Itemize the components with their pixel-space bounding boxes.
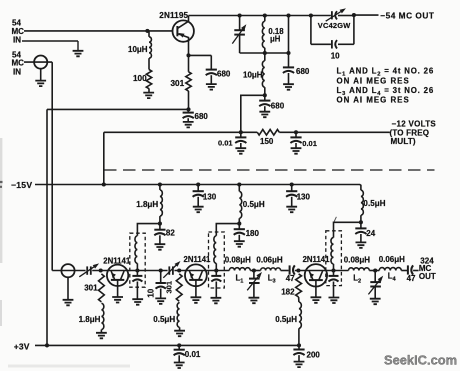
capacitor tank 1 xyxy=(136,271,138,276)
capacitor 47 (series) xyxy=(289,265,291,274)
svg-text:0.01: 0.01 xyxy=(218,139,233,148)
ground (Q2 emitter) xyxy=(117,280,119,297)
node rail junction 130b xyxy=(290,182,294,186)
capacitor VC42GW (variable, top edge) xyxy=(331,11,333,19)
node -12V junction left xyxy=(239,130,243,134)
resistor 100 xyxy=(148,58,150,69)
wire mixer input segment xyxy=(52,270,85,272)
wire tank right riser xyxy=(288,16,290,54)
ground (Q2 bias chain) xyxy=(96,333,107,339)
inductor 0.5uH (stage3 feed) xyxy=(361,190,363,215)
svg-text:680: 680 xyxy=(195,112,209,121)
ground (82) xyxy=(159,235,161,244)
ground (+3V 0.01) xyxy=(178,355,180,362)
svg-text:150: 150 xyxy=(260,137,274,146)
ground (0.01 left) xyxy=(240,143,242,148)
wire output stub xyxy=(413,270,419,272)
capacitor 200 (+3V bypass) xyxy=(298,345,300,349)
svg-text:2N1141: 2N1141 xyxy=(303,255,331,264)
ground (base chain) xyxy=(148,89,150,93)
svg-text:μH: μH xyxy=(270,34,281,43)
node stage1 feed junction xyxy=(158,222,162,226)
inductor 0.5uH (Q4 bias) xyxy=(298,297,300,302)
wire Q1 collector riser to top rail xyxy=(188,16,190,22)
inductor tank coil 1 xyxy=(135,236,137,264)
wire stage1 feed to tank box xyxy=(137,224,160,236)
ground (tank3) xyxy=(333,282,335,298)
svg-text:ON AI MEG RES: ON AI MEG RES xyxy=(337,76,410,85)
wire VC box right edge xyxy=(353,15,355,44)
inductor L4 0.06uH xyxy=(369,270,379,272)
ground (130a) xyxy=(197,197,199,207)
ground (130b) xyxy=(291,197,293,207)
svg-text:−12 VOLTS: −12 VOLTS xyxy=(392,119,437,128)
transistor Q2 2N1141 xyxy=(107,265,128,286)
ground (200) xyxy=(298,355,300,361)
node L2-L4 junction xyxy=(373,268,377,272)
svg-text:−15V: −15V xyxy=(11,180,32,190)
wire 301 to +3V feed line xyxy=(188,94,190,110)
svg-text:100: 100 xyxy=(133,74,147,83)
node +3V junction 0.01 xyxy=(177,343,181,347)
separator dashed line xyxy=(104,169,435,171)
capacitor 0.01 (+3V bypass) xyxy=(178,345,180,349)
svg-text:182: 182 xyxy=(281,287,295,296)
wire cap47 to Q4 xyxy=(295,270,349,272)
variable capacitor (L1/L3 tune) xyxy=(253,271,255,279)
node +3V left junction xyxy=(45,343,49,347)
ground (Q3 bias chain) xyxy=(174,331,185,337)
node VC box left junction xyxy=(309,13,313,17)
svg-text:301: 301 xyxy=(171,79,185,88)
svg-text:200: 200 xyxy=(307,351,321,360)
inductor 0.5uH (stage2 feed) xyxy=(238,185,240,192)
node tank rail junction A xyxy=(238,13,242,17)
svg-text:1.8μH: 1.8μH xyxy=(136,200,158,209)
resistor 150 (series) xyxy=(257,130,279,136)
inductor 1.8uH (stage1 feed) xyxy=(159,185,161,190)
variable capacitor (osc tank trimmer) xyxy=(239,16,241,31)
svg-text:MULT): MULT) xyxy=(391,137,416,146)
ground (680 feed bypass) xyxy=(187,118,189,121)
inductor 0.18uH xyxy=(264,16,266,22)
svg-text:10μH: 10μH xyxy=(243,71,263,80)
svg-text:130: 130 xyxy=(297,192,311,201)
node tank1 junction xyxy=(135,268,139,272)
ground (680 emitter bypass) xyxy=(210,75,212,84)
wire second input to vertical feed xyxy=(24,61,52,63)
capacitor 680 (feed bypass) xyxy=(187,109,189,112)
ground (mixer) xyxy=(67,277,69,299)
svg-text:0.06μH: 0.06μH xyxy=(256,255,282,264)
node stage3 feed junction xyxy=(359,220,363,224)
ground (J2 connector) xyxy=(40,69,42,81)
wire L4 to output cap xyxy=(401,270,408,272)
node Q3 input junction xyxy=(177,268,181,272)
svg-text:SeekIC.com: SeekIC.com xyxy=(384,353,457,368)
capacitor 180 xyxy=(238,224,240,230)
inductor tank coil 3 xyxy=(331,238,334,264)
svg-text:ON AI MEG RES: ON AI MEG RES xyxy=(337,96,410,105)
svg-text:+3V: +3V xyxy=(14,341,30,351)
inductor 1.8uH (Q2 bias) xyxy=(101,303,103,329)
capacitor tank 2 xyxy=(215,271,217,276)
wire VC box left edge xyxy=(310,16,312,45)
ground (180) xyxy=(238,235,240,241)
node Q4 input junction xyxy=(296,268,300,272)
wire vertical feed from J2 down to mixer xyxy=(51,62,53,270)
node tank2 junction xyxy=(214,268,218,272)
ground (24) xyxy=(360,234,362,242)
inductor 10uH (base choke) xyxy=(149,37,151,58)
mixer circle xyxy=(61,264,74,277)
node +3V junction 200 xyxy=(297,343,301,347)
transistor Q1 2N1195 xyxy=(173,20,194,41)
svg-text:0.08μH: 0.08μH xyxy=(344,255,370,264)
capacitor 82 xyxy=(159,224,161,230)
ground (tank1) xyxy=(136,282,138,299)
svg-text:0.08μH: 0.08μH xyxy=(225,256,251,265)
capacitor 47 (output series) xyxy=(407,265,409,274)
ground (tank2) xyxy=(215,282,217,298)
wire -12V distribution line xyxy=(104,131,257,133)
shield box 3 (dashed) xyxy=(326,231,342,286)
capacitor 680 (emitter bypass) xyxy=(210,55,212,69)
wire L3 to cap 47 xyxy=(281,270,289,272)
wire +3V rail xyxy=(35,344,299,346)
svg-text:IN: IN xyxy=(13,68,21,77)
svg-text:1.8μH: 1.8μH xyxy=(79,315,101,324)
ground (L2/L4 tune) xyxy=(370,299,381,305)
ground (0.01 right) xyxy=(295,143,297,148)
wire top rail (oscillator tank) xyxy=(189,15,312,17)
capacitor 10 (to ground) xyxy=(160,271,162,284)
inductor 10uH (feed choke) xyxy=(264,53,266,61)
transistor Q4 2N1141 xyxy=(305,264,327,286)
capacitor 24 xyxy=(360,222,362,228)
capacitor 130 (rail bypass a) xyxy=(197,185,199,192)
node rail junction stage1 xyxy=(158,182,162,186)
svg-text:0.5μH: 0.5μH xyxy=(363,199,385,208)
node tank bottom junction xyxy=(263,51,267,55)
svg-text:10: 10 xyxy=(331,51,340,60)
wire IN lower stub xyxy=(22,40,78,42)
svg-text:10: 10 xyxy=(146,288,155,297)
inductor L3 0.06uH xyxy=(250,270,260,272)
resistor 301 (Q3 bias, vertical label) xyxy=(176,274,182,301)
node Q2 input junction xyxy=(99,268,103,272)
ground (Q4 emitter) xyxy=(315,280,317,297)
node Q1 base junction xyxy=(145,29,149,33)
wire +3V feed line horizontal xyxy=(47,108,189,110)
svg-text:0.5μH: 0.5μH xyxy=(153,315,175,324)
ground (L1/L3 tune) xyxy=(249,298,260,304)
capacitor tank 3 xyxy=(333,271,335,276)
capacitor 0.01 (left) xyxy=(240,132,242,137)
wire choke to -12V line xyxy=(241,95,265,132)
svg-text:301: 301 xyxy=(165,280,174,293)
svg-text:24: 24 xyxy=(366,229,375,238)
node emitter-resistor / feed junction xyxy=(186,107,190,111)
resistor 301 (emitter) xyxy=(188,55,190,71)
wire trimmer2 to Q3 xyxy=(174,270,229,272)
inductor tank coil 2 xyxy=(214,236,216,264)
node L1-L3 junction xyxy=(252,268,256,272)
wire stage2 feed to tank box xyxy=(216,224,239,236)
wire +3V feed vertical (left riser) xyxy=(46,109,48,345)
svg-text:47: 47 xyxy=(286,274,295,283)
svg-text:IN: IN xyxy=(13,35,21,44)
wire 54MC-IN upper to oscillator base xyxy=(24,30,173,32)
svg-text:680: 680 xyxy=(217,70,231,79)
wire scan artifact left edge xyxy=(0,182,3,187)
svg-text:VC42GW: VC42GW xyxy=(318,21,351,30)
node Q1 emitter junction xyxy=(186,53,190,57)
node rail junction 130a xyxy=(196,182,200,186)
variable capacitor (L2/L4 tune) xyxy=(374,271,376,283)
shield box 1 (dashed) xyxy=(130,233,145,287)
svg-text:2N1195: 2N1195 xyxy=(159,11,188,20)
svg-text:0.5μH: 0.5μH xyxy=(243,200,265,209)
capacitor 10 (fixed, bottom edge) xyxy=(311,43,331,45)
inductor 0.5uH (Q3 bias) xyxy=(177,303,179,328)
ground (tank 680) xyxy=(288,73,290,84)
wire to 54 MC OUT xyxy=(354,14,379,16)
node stage2 feed junction xyxy=(237,222,241,226)
svg-text:10μH: 10μH xyxy=(128,45,148,54)
svg-text:680: 680 xyxy=(296,67,310,76)
node -12V junction right xyxy=(294,130,298,134)
svg-text:301: 301 xyxy=(84,284,98,293)
svg-text:−54 MC OUT: −54 MC OUT xyxy=(380,11,434,21)
ground (Q3 emitter) xyxy=(195,280,197,297)
svg-text:OUT: OUT xyxy=(419,272,436,281)
ground (IN stub) xyxy=(77,41,79,51)
svg-text:180: 180 xyxy=(246,229,260,238)
resistor 182 (Q4 bias) xyxy=(296,274,302,297)
wire stage3 feed to tank box xyxy=(334,222,361,237)
ground (choke 680) xyxy=(264,106,266,111)
node rail junction stage2 xyxy=(237,182,241,186)
svg-text:0.01: 0.01 xyxy=(185,350,201,359)
svg-text:680: 680 xyxy=(271,101,285,110)
variable capacitor (series trimmer 2) xyxy=(168,266,170,274)
node output junction xyxy=(352,13,356,17)
node tank3 junction xyxy=(331,268,335,272)
svg-text:MC: MC xyxy=(12,58,25,67)
resistor 301 (Q2 bias) xyxy=(99,274,105,302)
transistor Q3 2N1141 xyxy=(185,264,207,286)
wire tank bottom xyxy=(240,52,289,54)
svg-text:2N1141: 2N1141 xyxy=(184,255,212,264)
svg-text:0.01: 0.01 xyxy=(302,139,317,148)
capacitor 680 (choke bypass) xyxy=(264,95,266,100)
wire -12V drop to -15V rail xyxy=(103,132,105,184)
wire emitter to bypass cap xyxy=(189,54,212,56)
variable capacitor (series trimmer 1) xyxy=(86,266,88,274)
capacitor 0.01 (right) xyxy=(295,132,297,137)
wire Q1 base bias chain stem xyxy=(148,31,150,37)
node coupling junction after tank1 xyxy=(159,268,163,272)
node tank rail junction C xyxy=(286,13,290,17)
svg-text:47: 47 xyxy=(407,274,416,283)
wire Q1 emitter drop xyxy=(188,38,190,56)
inductor L2 0.08uH xyxy=(349,268,370,271)
ground (cap 10) xyxy=(160,289,162,299)
wire trimmer1 to Q2 xyxy=(92,270,167,272)
svg-text:82: 82 xyxy=(166,228,175,237)
wire -15V rail xyxy=(35,185,361,191)
node choke bottom junction xyxy=(263,93,267,97)
inductor L1 0.08uH xyxy=(229,268,250,271)
svg-text:130: 130 xyxy=(203,192,217,201)
input connector circle J2 xyxy=(34,56,47,69)
node tank bottom right junction xyxy=(286,51,290,55)
shield box 2 (dashed) xyxy=(209,232,225,288)
node rail junction -12V drop xyxy=(102,182,106,186)
svg-text:0.06μH: 0.06μH xyxy=(379,255,405,264)
node tank rail junction B xyxy=(263,13,267,17)
svg-text:0.5μH: 0.5μH xyxy=(275,315,297,324)
capacitor 680 (tank ground) xyxy=(288,53,290,67)
capacitor 130 (rail bypass b) xyxy=(291,185,293,192)
